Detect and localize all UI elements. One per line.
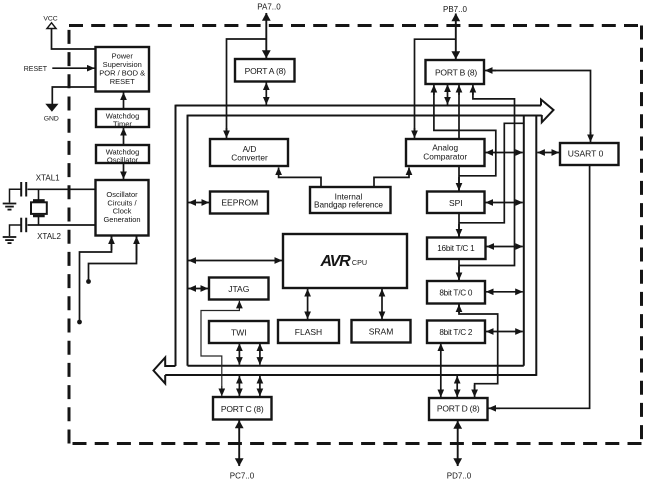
arrow data bus to AVR CPU [189, 260, 283, 262]
svg-text:GND: GND [44, 115, 59, 122]
ground symbol 1 [3, 204, 17, 210]
svg-text:Converter: Converter [231, 152, 268, 162]
block: JTAG [209, 278, 269, 300]
wire PORT B to 8bit T/C 0 staircase [459, 88, 515, 266]
arrow analog comparator to data bus [486, 152, 523, 154]
wire XTAL2 [28, 224, 96, 226]
svg-text:TWI: TWI [231, 327, 247, 337]
node: oscillator output dot 2 [86, 279, 91, 284]
block: FLASH [278, 320, 339, 343]
svg-text:RESET: RESET [110, 77, 135, 86]
svg-text:PC7..0: PC7..0 [230, 472, 255, 481]
arrow CPU to FLASH [307, 289, 309, 319]
block: PORT C [213, 397, 272, 420]
svg-text:PORT D (8): PORT D (8) [437, 404, 480, 414]
arrows terminating on blocks [52, 13, 590, 466]
arrow internal bandgap to analog comparator [374, 168, 409, 187]
arrow into 8bit T/C 0 bottom [458, 305, 460, 314]
arrow into 16bit T/C 1 top [458, 224, 460, 237]
arrow into 8bit T/C 0 top [458, 267, 460, 281]
wire oscillator output 2 [89, 236, 137, 282]
arrow USART link into PORT B [485, 70, 496, 72]
svg-text:Comparator: Comparator [423, 151, 467, 161]
wire capacitor 1 to ground [10, 189, 22, 202]
data bus arrowhead right (top) [541, 100, 554, 123]
arrow into A/D converter top [226, 128, 228, 138]
arrow into analog comparator top [414, 128, 416, 138]
arrow TWI to data bus 1 [238, 344, 240, 365]
svg-text:16bit T/C 1: 16bit T/C 1 [437, 244, 475, 253]
arrow PORT B wire 4 [472, 85, 474, 95]
wire oscillator output 1 [80, 236, 112, 322]
svg-text:RESET: RESET [24, 66, 48, 73]
wire JTAG to PORT C (thin) [201, 303, 239, 394]
arrow pin PC7..0 [238, 421, 240, 467]
node: oscillator output dot 1 [77, 320, 82, 325]
svg-text:8bit T/C 2: 8bit T/C 2 [439, 328, 473, 337]
arrow data bus to USART 0 [537, 152, 559, 154]
arrow watchdog oscillator to oscillator circuits [123, 164, 125, 180]
block: USART 0 [560, 143, 619, 165]
arrow internal bandgap to A/D converter [279, 168, 321, 187]
svg-text:PORT A (8): PORT A (8) [245, 66, 287, 76]
svg-text:8bit T/C 0: 8bit T/C 0 [439, 288, 473, 297]
block: 8bit T/C 0 [427, 281, 485, 304]
wire PORT B to SPI staircase [434, 88, 496, 176]
svg-text:USART 0: USART 0 [568, 149, 604, 159]
block: A/D Converter [210, 139, 288, 166]
svg-text:PORT B (8): PORT B (8) [435, 68, 477, 78]
wire bus to 16bit T/C 1 staircase [459, 123, 524, 223]
svg-text:AVR: AVR [320, 253, 352, 270]
block: Watchdog Oscillator [96, 145, 149, 163]
arrow RESET input [52, 67, 94, 69]
block: Oscillator Circuits / Clock Generation [96, 180, 149, 236]
block: Power Supervision POR/BOD & RESET [96, 47, 150, 92]
arrow JTAG to data bus [189, 288, 209, 290]
svg-text:Timer: Timer [113, 119, 132, 128]
block: AVR CPU [283, 234, 407, 288]
wire XTAL1 [28, 188, 96, 190]
block: Analog Comparator [406, 139, 485, 166]
capacitor XTAL2 [21, 218, 26, 233]
svg-text:JTAG: JTAG [228, 284, 249, 294]
arrow 8bit T/C 2 to data bus [486, 331, 523, 333]
arrow into PORT D top (timer wire) [474, 385, 476, 397]
crystal symbol [31, 189, 47, 225]
arrow JTAG up (thin) [238, 301, 240, 308]
block: SPI [427, 192, 485, 214]
wire GND to power supervision [52, 87, 95, 105]
block: Internal Bandgap reference [310, 187, 391, 213]
arrow TWI to data bus 2 [259, 344, 261, 365]
block: 16bit T/C 1 [427, 238, 486, 260]
wire USART 0 to PORT D [491, 165, 590, 408]
svg-text:FLASH: FLASH [295, 327, 322, 337]
svg-text:PORT C (8): PORT C (8) [221, 404, 264, 414]
arrow PORT B wire 3 [458, 85, 460, 95]
arrow pin PB7..0 [455, 14, 457, 60]
arrow USART 0 into PORT D right [489, 407, 501, 409]
block: PORT A [235, 59, 295, 82]
arrow PORT A to data bus [265, 83, 267, 105]
svg-text:XTAL2: XTAL2 [37, 232, 61, 241]
block: TWI [209, 321, 269, 343]
arrow watchdog timer to power supervision [123, 93, 125, 109]
svg-text:XTAL1: XTAL1 [36, 174, 60, 183]
block: Watchdog Timer [96, 109, 149, 127]
labels: small blocks [99, 51, 145, 224]
labels: pins [24, 3, 472, 481]
svg-text:PB7..0: PB7..0 [443, 5, 468, 14]
chip boundary dashed border [69, 26, 642, 444]
arrow into SPI top [458, 177, 460, 191]
wire PORT B to USART 0 [488, 71, 591, 141]
arrow CPU to SRAM [381, 289, 383, 319]
data bus (hollow arrow ring) [154, 100, 554, 384]
arrow 16bit T/C 1 to data bus [487, 246, 523, 248]
arrow PORT B wire 1 [433, 85, 435, 95]
VCC pin symbol [47, 23, 56, 29]
arrow pin PA7..0 [265, 13, 267, 58]
wire capacitor 2 to ground [10, 225, 22, 236]
svg-text:SRAM: SRAM [369, 327, 394, 337]
arrow USART link into USART top [590, 132, 592, 142]
svg-text:Generation: Generation [103, 215, 140, 224]
svg-text:Bandgap reference: Bandgap reference [314, 200, 383, 210]
wire PORT B through peripherals [459, 88, 498, 394]
ground symbol 2 [3, 237, 17, 243]
svg-text:PA7..0: PA7..0 [257, 3, 281, 12]
svg-text:CPU: CPU [352, 258, 367, 267]
arrow 8bit T/C 0 to data bus [486, 291, 523, 293]
svg-text:VCC: VCC [43, 16, 57, 23]
data bus arrowhead left (bottom) [154, 358, 176, 384]
block: PORT B [426, 60, 485, 84]
arrow data bus to PORT D [456, 376, 458, 397]
svg-text:SPI: SPI [449, 198, 463, 208]
arrow data bus to PORT C 1 [238, 376, 240, 396]
wire PB pins to analog comparator [415, 39, 456, 136]
svg-text:PD7..0: PD7..0 [447, 472, 472, 481]
arrow oscillator wire 1 into block [111, 237, 113, 251]
arrow watchdog oscillator to watchdog timer [123, 128, 125, 145]
block: PORT D [429, 398, 488, 420]
GND pin symbol [45, 104, 58, 112]
arrow pin PD7..0 [457, 421, 459, 466]
arrow SPI to data bus [486, 202, 523, 204]
arrow oscillator wire 2 into block [136, 237, 138, 261]
arrow data bus to PORT C 2 [259, 376, 261, 396]
block: SRAM [352, 320, 411, 343]
arrow EEPROM to data bus [189, 202, 210, 204]
arrow 8bit T/C 2 to PORT D [440, 344, 442, 398]
arrow PORT B to data bus [447, 85, 449, 105]
block: EEPROM [210, 192, 268, 214]
svg-text:EEPROM: EEPROM [221, 198, 258, 208]
block: 8bit T/C 2 [427, 321, 485, 344]
capacitor XTAL1 [21, 182, 26, 197]
arrow into PORT C top (thin) [221, 386, 223, 396]
blocks [96, 47, 619, 420]
svg-text:Oscillator: Oscillator [107, 155, 139, 164]
wire VCC to power supervision [52, 29, 96, 50]
wire PA pins to A/D converter [227, 39, 267, 136]
